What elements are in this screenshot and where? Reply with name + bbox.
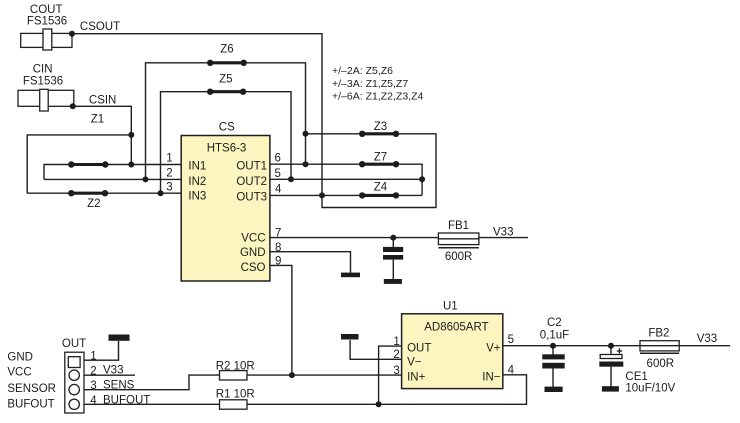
svg-text:V33: V33: [103, 365, 123, 377]
svg-text:6: 6: [275, 153, 281, 165]
svg-text:+/–6A: Z1,Z2,Z3,Z4: +/–6A: Z1,Z2,Z3,Z4: [332, 91, 423, 103]
svg-text:600R: 600R: [647, 358, 675, 370]
svg-text:VCC: VCC: [241, 232, 265, 244]
svg-text:AD8605ART: AD8605ART: [424, 322, 488, 334]
svg-text:5: 5: [275, 168, 281, 180]
svg-text:CIN: CIN: [33, 63, 53, 75]
svg-text:8: 8: [275, 242, 281, 254]
svg-text:CSIN: CSIN: [89, 95, 116, 107]
svg-text:7: 7: [275, 228, 281, 240]
svg-text:3: 3: [166, 182, 172, 194]
svg-text:+/–2A: Z5,Z6: +/–2A: Z5,Z6: [332, 65, 393, 77]
svg-text:2: 2: [90, 365, 96, 377]
svg-text:2: 2: [166, 168, 172, 180]
svg-text:Z4: Z4: [374, 181, 388, 193]
svg-text:FS1536: FS1536: [23, 76, 63, 88]
svg-text:Z2: Z2: [87, 198, 100, 210]
svg-text:V33: V33: [697, 333, 717, 345]
svg-text:Z3: Z3: [374, 121, 387, 133]
svg-text:GND: GND: [7, 352, 33, 364]
svg-text:Z5: Z5: [219, 74, 232, 86]
svg-text:SENSOR: SENSOR: [7, 383, 56, 395]
svg-text:C2: C2: [547, 317, 562, 329]
svg-text:R2 10R: R2 10R: [216, 360, 255, 372]
svg-text:600R: 600R: [445, 251, 473, 263]
svg-text:1: 1: [90, 351, 96, 363]
svg-text:CE1: CE1: [625, 371, 647, 383]
svg-text:1: 1: [166, 152, 172, 164]
svg-text:HTS6-3: HTS6-3: [207, 142, 247, 154]
svg-text:5: 5: [508, 334, 514, 346]
svg-text:OUT2: OUT2: [236, 176, 267, 188]
svg-text:OUT3: OUT3: [236, 192, 267, 204]
svg-text:OUT1: OUT1: [236, 161, 267, 173]
svg-text:IN1: IN1: [188, 161, 206, 173]
svg-text:2: 2: [393, 349, 399, 361]
svg-text:OUT: OUT: [407, 343, 431, 355]
svg-text:IN2: IN2: [188, 176, 206, 188]
svg-text:CSOUT: CSOUT: [80, 21, 120, 33]
svg-text:10uF/10V: 10uF/10V: [625, 383, 675, 395]
svg-text:4: 4: [508, 365, 515, 377]
svg-text:IN−: IN−: [482, 372, 501, 384]
svg-text:R1 10R: R1 10R: [216, 388, 255, 400]
svg-text:U1: U1: [443, 300, 458, 312]
svg-text:FB1: FB1: [448, 220, 469, 232]
svg-text:+/–3A: Z1,Z5,Z7: +/–3A: Z1,Z5,Z7: [332, 78, 408, 90]
svg-text:3: 3: [90, 380, 96, 392]
svg-text:OUT: OUT: [62, 338, 86, 350]
svg-text:BUFOUT: BUFOUT: [103, 395, 150, 407]
svg-text:GND: GND: [240, 247, 266, 259]
svg-text:Z6: Z6: [220, 44, 233, 56]
svg-text:Z1: Z1: [91, 113, 104, 125]
svg-text:1: 1: [393, 336, 399, 348]
svg-text:IN+: IN+: [407, 372, 426, 384]
svg-text:SENS: SENS: [103, 380, 135, 392]
svg-text:Z7: Z7: [374, 152, 387, 164]
svg-text:V−: V−: [407, 356, 422, 368]
svg-text:0,1uF: 0,1uF: [540, 330, 569, 342]
svg-text:4: 4: [275, 184, 282, 196]
svg-text:CSO: CSO: [241, 262, 266, 274]
svg-text:FB2: FB2: [648, 327, 669, 339]
svg-text:V33: V33: [493, 227, 513, 239]
svg-text:FS1536: FS1536: [27, 16, 67, 28]
svg-text:V+: V+: [486, 343, 501, 355]
svg-text:IN3: IN3: [188, 191, 206, 203]
svg-text:VCC: VCC: [7, 366, 31, 378]
svg-text:BUFOUT: BUFOUT: [7, 399, 54, 411]
svg-text:COUT: COUT: [30, 4, 63, 16]
svg-text:4: 4: [90, 395, 97, 407]
svg-text:CS: CS: [219, 122, 235, 134]
svg-text:9: 9: [275, 256, 281, 268]
svg-text:3: 3: [393, 365, 399, 377]
